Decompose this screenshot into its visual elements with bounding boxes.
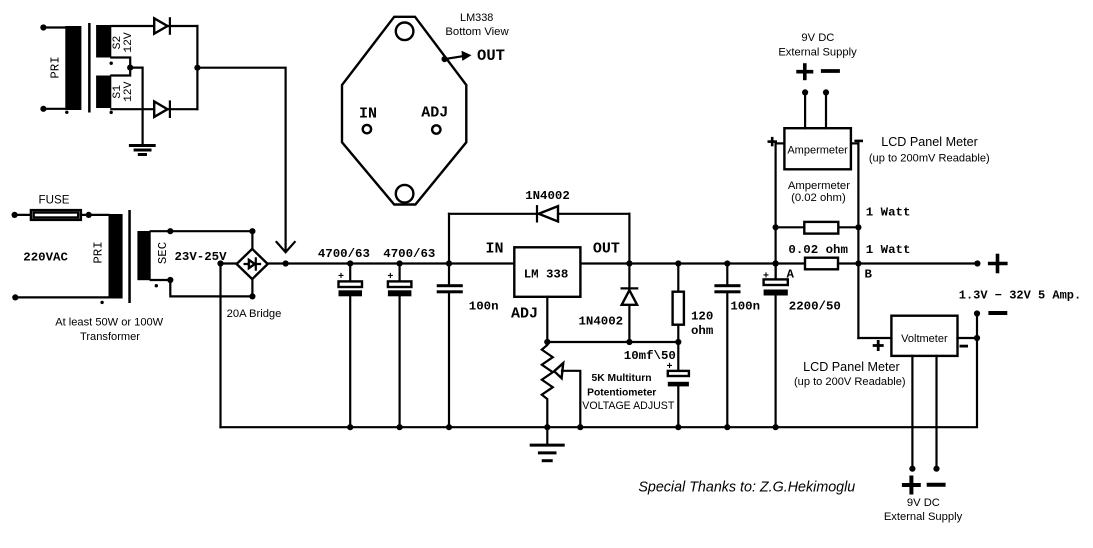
- plus symbol 9V supply bottom: [902, 476, 921, 495]
- label 120 ohm: [691, 309, 713, 338]
- capacitor C3 100n: [437, 214, 463, 431]
- svg-text:SEC: SEC: [156, 242, 170, 264]
- svg-text:100n: 100n: [730, 299, 760, 313]
- svg-text:ohm: ohm: [691, 324, 713, 338]
- arrowhead aux feed: [277, 242, 295, 252]
- svg-text:Bottom View: Bottom View: [445, 26, 509, 38]
- svg-text:(0.02 ohm): (0.02 ohm): [791, 192, 846, 204]
- wire SEC top to bridge: [151, 228, 256, 234]
- label LCD Panel Meter 200mV: [869, 135, 990, 164]
- TO-3 package outline: [342, 17, 466, 205]
- node aux feed on rail: [283, 260, 289, 266]
- svg-text:S1: S1: [112, 85, 124, 99]
- transformer T2 secondary winding SEC: [137, 231, 150, 280]
- label 9V DC External Supply (bottom): [884, 497, 963, 523]
- label At least 50W or 100W Transformer: [55, 317, 163, 344]
- node pot to ground: [544, 424, 550, 430]
- wire bridge top lead: [251, 231, 253, 250]
- label 9V DC External Supply (top): [778, 32, 857, 59]
- wire voltmeter plus lead: [858, 337, 891, 339]
- wire rectifier output vertical: [196, 26, 198, 109]
- mounting hole bottom: [396, 185, 414, 203]
- svg-text:100n: 100n: [469, 299, 499, 313]
- svg-text:10mf\50: 10mf\50: [624, 349, 676, 363]
- wire S2 top to diode: [111, 25, 154, 27]
- pin IN: [359, 106, 377, 134]
- polarity dot S2: [110, 62, 113, 65]
- pot wiper arrow: [554, 363, 583, 430]
- svg-text:Ampermeter: Ampermeter: [787, 144, 848, 156]
- potentiometer P1 5K: [542, 342, 553, 427]
- svg-text:Transformer: Transformer: [80, 331, 140, 343]
- wire fuse to T2 primary: [81, 212, 109, 218]
- wire PRI top lead: [40, 24, 65, 30]
- svg-text:1N4002: 1N4002: [525, 189, 570, 203]
- wire ampermeter supply leads: [802, 89, 829, 128]
- label LCD Panel Meter 200V: [794, 360, 906, 388]
- label LM338 Bottom View: [445, 12, 509, 38]
- node OUT on rail: [626, 260, 632, 266]
- capacitor C6 2200/50: [763, 260, 788, 430]
- svg-text:12V: 12V: [123, 32, 135, 53]
- wire voltmeter supply leads: [909, 356, 939, 472]
- wire mains top left: [12, 212, 31, 218]
- polarity dot PRI T2: [100, 301, 103, 304]
- svg-text:ADJ: ADJ: [421, 105, 448, 122]
- transformer T1 primary winding: [65, 26, 81, 110]
- capacitor C5 100n: [714, 260, 740, 430]
- label plus at ampermeter: [768, 137, 778, 146]
- node output minus: [974, 310, 980, 316]
- diode D3 1N4002: [537, 206, 558, 221]
- mounting hole top: [396, 23, 414, 41]
- svg-text:+: +: [763, 271, 769, 282]
- svg-text:A: A: [787, 267, 795, 281]
- diode D4 1N4002 vertical: [622, 264, 638, 343]
- svg-text:PRI: PRI: [92, 241, 106, 263]
- ground symbol (pot): [530, 445, 565, 461]
- svg-text:+: +: [338, 272, 344, 283]
- label plus at voltmeter: [873, 340, 884, 351]
- transformer T1 secondary winding S1: [96, 76, 111, 109]
- svg-text:5K Multiturn: 5K Multiturn: [591, 373, 651, 384]
- svg-text:ADJ: ADJ: [511, 305, 538, 322]
- transformer T2 primary winding: [109, 214, 123, 299]
- svg-text:1.3V − 32V 5 Amp.: 1.3V − 32V 5 Amp.: [959, 289, 1081, 303]
- plus symbol output: [988, 254, 1008, 274]
- wire pot ground stem: [546, 427, 548, 444]
- svg-text:Potentiometer: Potentiometer: [587, 387, 656, 398]
- transformer T2 core: [128, 210, 131, 303]
- svg-text:1 Watt: 1 Watt: [866, 206, 911, 220]
- wire bridge left to down line: [217, 260, 236, 266]
- wire aux DC feed to main node: [197, 68, 285, 250]
- svg-text:(up to 200V Readable): (up to 200V Readable): [794, 376, 906, 388]
- svg-text:Voltmeter: Voltmeter: [901, 333, 948, 345]
- svg-text:1N4002: 1N4002: [578, 314, 623, 328]
- svg-text:LM 338: LM 338: [524, 268, 569, 282]
- svg-text:20A Bridge: 20A Bridge: [227, 308, 282, 320]
- minus symbol 9V supply top: [821, 69, 840, 73]
- transformer T1 core: [88, 23, 91, 113]
- wire protection diode top: [449, 214, 629, 264]
- label Ampermeter 0.02 ohm: [788, 180, 850, 204]
- label minus at voltmeter: [960, 345, 969, 348]
- svg-text:OUT: OUT: [477, 47, 505, 65]
- wire center tap: [111, 58, 130, 76]
- node output plus: [974, 260, 980, 266]
- svg-text:At least 50W or 100W: At least 50W or 100W: [55, 317, 163, 329]
- wire bottom return rail: [221, 314, 978, 428]
- arrow OUT case pin: [442, 47, 505, 65]
- svg-text:LM338: LM338: [460, 12, 493, 24]
- svg-text:IN: IN: [485, 240, 503, 257]
- diode D2 bottom rectifier: [154, 102, 197, 117]
- capacitor C4 10mf/50: [667, 342, 689, 430]
- node rectifier output: [194, 65, 200, 71]
- wire column A: [773, 143, 779, 279]
- svg-text:OUT: OUT: [593, 240, 620, 257]
- svg-text:VOLTAGE ADJUST: VOLTAGE ADJUST: [582, 400, 675, 412]
- label 5K Multiturn Potentiometer VOLTAGE ADJUST: [582, 373, 675, 412]
- resistor R3 0.02 ohm shunt on rail: [805, 258, 838, 270]
- capacitor C1 4700/63: [338, 260, 362, 430]
- svg-text:4700/63: 4700/63: [383, 247, 435, 261]
- svg-text:IN: IN: [359, 106, 377, 123]
- wire ampermeter plus lead: [776, 142, 785, 144]
- fuse F1: [31, 210, 81, 220]
- svg-text:+: +: [387, 272, 393, 283]
- polarity dot PRI T1: [65, 111, 68, 114]
- ampermeter M1 box: [784, 128, 851, 169]
- polarity dot S1: [110, 111, 113, 114]
- svg-text:(up to 200mV Readable): (up to 200mV Readable): [869, 152, 990, 164]
- resistor R1 120 ohm: [673, 260, 684, 342]
- wire main positive rail: [268, 262, 978, 264]
- svg-text:External Supply: External Supply: [884, 511, 963, 523]
- wire center tap to ground: [130, 68, 142, 144]
- node center tap: [127, 65, 133, 71]
- voltmeter M2 box: [891, 316, 957, 356]
- svg-text:220VAC: 220VAC: [23, 250, 68, 264]
- polarity dot SEC: [155, 284, 158, 287]
- svg-text:Ampermeter: Ampermeter: [788, 180, 850, 192]
- svg-text:LCD Panel Meter: LCD Panel Meter: [803, 360, 900, 374]
- wire ampermeter minus lead: [851, 142, 859, 144]
- svg-text:LCD Panel Meter: LCD Panel Meter: [881, 135, 978, 149]
- wire S1 bottom to diode: [111, 108, 154, 110]
- op-amp U1 LM 338 regulator box: [514, 247, 580, 296]
- svg-text:2200/50: 2200/50: [789, 299, 841, 313]
- svg-text:+: +: [667, 362, 673, 373]
- svg-text:S2: S2: [112, 36, 124, 50]
- svg-text:9V DC: 9V DC: [801, 32, 834, 44]
- svg-text:External Supply: External Supply: [778, 46, 857, 58]
- pin ADJ: [421, 105, 448, 134]
- svg-text:120: 120: [691, 309, 713, 323]
- resistor R2 0.02 ohm shunt upper: [776, 222, 859, 234]
- label minus at ampermeter: [854, 140, 863, 143]
- wire column B: [855, 143, 861, 338]
- capacitor C2 4700/63: [387, 260, 411, 430]
- svg-text:9V DC: 9V DC: [907, 497, 940, 509]
- wire bridge bottom lead: [251, 279, 253, 297]
- svg-text:Special Thanks to: Z.G.Hekimog: Special Thanks to: Z.G.Hekimoglu: [638, 480, 855, 496]
- plus symbol 9V supply top: [796, 63, 813, 80]
- minus symbol 9V supply bottom: [927, 483, 946, 487]
- svg-text:FUSE: FUSE: [39, 194, 70, 207]
- wire bridge negative down: [219, 264, 221, 428]
- svg-text:12V: 12V: [123, 81, 135, 102]
- wire ADJ pin down: [546, 297, 548, 342]
- wire SEC bottom to bridge: [151, 277, 256, 300]
- ground symbol (center tap): [129, 146, 156, 155]
- diode D1 top rectifier: [154, 18, 197, 33]
- svg-text:PRI: PRI: [49, 56, 63, 78]
- svg-text:0.02 ohm: 0.02 ohm: [788, 243, 848, 257]
- bridge rectifier 20A: [237, 249, 268, 279]
- minus symbol output: [988, 311, 1007, 315]
- svg-text:4700/63: 4700/63: [318, 247, 370, 261]
- svg-text:B: B: [865, 267, 873, 281]
- wire mains bottom: [12, 294, 108, 300]
- svg-text:1 Watt: 1 Watt: [866, 243, 911, 257]
- wire voltmeter minus lead: [958, 335, 981, 341]
- transformer T1 secondary winding S2: [96, 25, 111, 58]
- wire PRI bottom lead: [40, 106, 65, 112]
- wire ADJ horizontal: [544, 339, 681, 345]
